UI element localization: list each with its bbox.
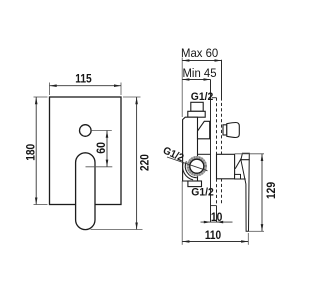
handle front (stadium) bbox=[76, 153, 95, 230]
side port hatched annulus bbox=[188, 158, 205, 175]
dim 220 line bbox=[136, 97, 138, 230]
wall tick bottom bbox=[211, 205, 217, 207]
extension line left (body back) upper bbox=[181, 58, 183, 118]
svg-text:10: 10 bbox=[211, 212, 223, 224]
lever top face bbox=[241, 153, 249, 160]
diverter fitting (chamfered block) bbox=[198, 121, 210, 139]
svg-text:129: 129 bbox=[266, 182, 278, 199]
elbow crescent inner arc bbox=[185, 161, 196, 177]
wall line max60 solid then dashed bbox=[221, 60, 223, 98]
cartridge top edge through wall bbox=[198, 153, 211, 155]
plate bbox=[50, 97, 122, 205]
svg-text:60: 60 bbox=[96, 142, 108, 154]
extension right (110) bbox=[247, 233, 249, 245]
dim Min 45 line bbox=[182, 79, 210, 81]
leader top (129) bbox=[235, 153, 264, 155]
side port bore circle bbox=[190, 159, 204, 173]
extension lines plate top corners bbox=[34, 83, 141, 205]
extension line left lower (to 110) bbox=[181, 181, 183, 245]
dim 180 line bbox=[35, 97, 37, 205]
svg-text:110: 110 bbox=[205, 230, 221, 242]
cartridge box between wall and handle bbox=[217, 154, 235, 179]
wall line min45 solid bbox=[210, 80, 212, 223]
leader bottom (129) bbox=[249, 230, 265, 232]
svg-text:Max 60: Max 60 bbox=[181, 46, 218, 60]
knob stem bbox=[223, 125, 227, 135]
lever blade bbox=[241, 160, 249, 231]
dim 60 line bbox=[106, 131, 108, 167]
bottom port stub bbox=[188, 181, 202, 187]
valve body bbox=[183, 117, 198, 181]
lever bottom step line bbox=[241, 178, 246, 180]
leader handle center to dim 60 bbox=[86, 166, 113, 168]
step block bbox=[235, 174, 241, 179]
svg-text:G1/2: G1/2 bbox=[191, 91, 214, 103]
dim 110 line bbox=[182, 241, 248, 243]
diverter button circle bbox=[80, 125, 92, 137]
dim 129 line bbox=[261, 154, 263, 232]
dim 115 line bbox=[50, 85, 122, 87]
top port stub G1/2 bbox=[191, 102, 203, 111]
collar bbox=[188, 111, 205, 117]
svg-text:G1/2: G1/2 bbox=[161, 145, 186, 165]
svg-text:G1/2: G1/2 bbox=[191, 186, 214, 198]
svg-text:Min 45: Min 45 bbox=[183, 66, 217, 80]
svg-text:115: 115 bbox=[75, 73, 92, 85]
G1/2 diagonal leader bbox=[167, 157, 208, 171]
knob cap bbox=[227, 123, 240, 138]
wall tick top bbox=[212, 97, 217, 99]
dim Max 60 line bbox=[182, 60, 221, 62]
leader circle to dim 60 bbox=[91, 130, 112, 132]
svg-text:180: 180 bbox=[25, 144, 37, 161]
dim 10 line with outside arrows bbox=[201, 221, 233, 223]
handle leader bottom (220) bbox=[91, 229, 143, 231]
lever neck diagonal bbox=[235, 153, 244, 169]
wall line mid dashed bbox=[216, 98, 218, 206]
elbow crescent outer arc bbox=[183, 163, 194, 180]
svg-text:220: 220 bbox=[140, 154, 152, 171]
